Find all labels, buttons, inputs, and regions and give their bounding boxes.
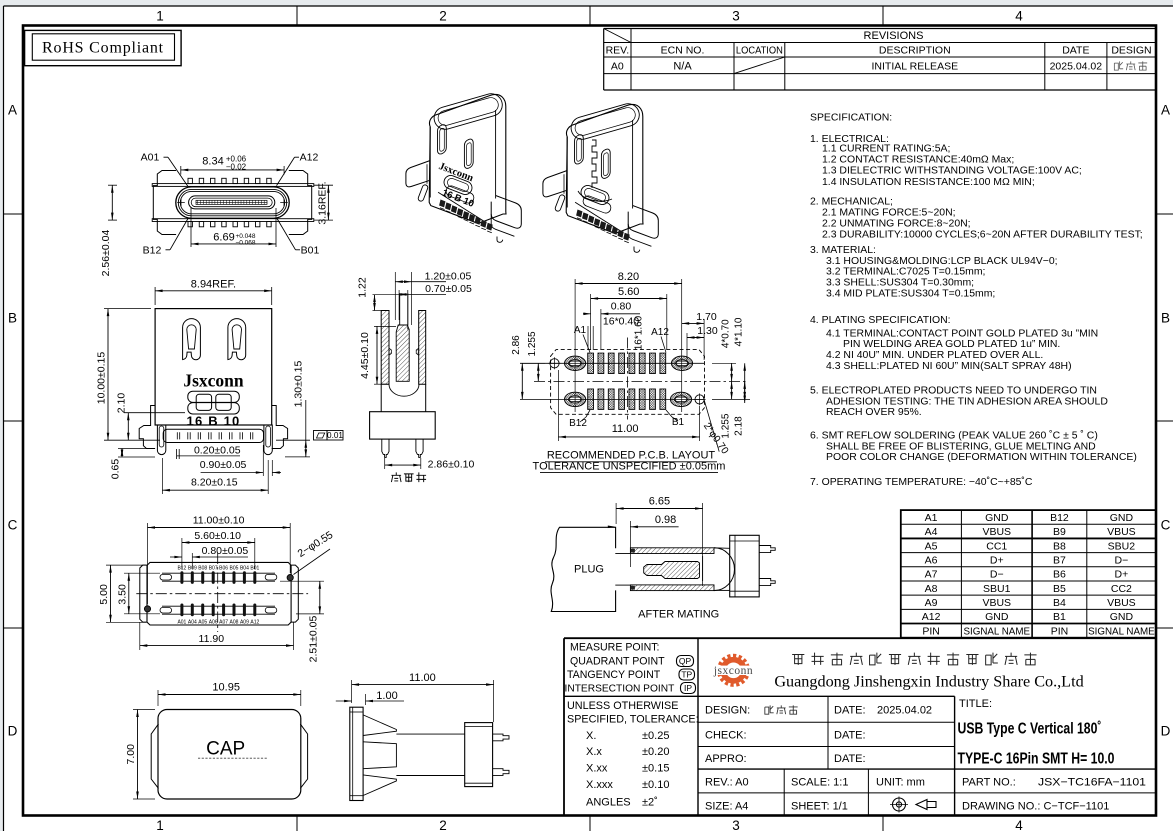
svg-text:DESIGN: DESIGN [1111, 45, 1151, 57]
svg-text:TYPE-C 16Pin SMT H= 10.0: TYPE-C 16Pin SMT H= 10.0 [958, 751, 1115, 768]
svg-text:UNLESS OTHERWISE: UNLESS OTHERWISE [567, 700, 678, 712]
svg-text:±0.10: ±0.10 [642, 779, 669, 791]
svg-text:jsxconn: jsxconn [713, 665, 753, 677]
svg-text:X.xxx: X.xxx [586, 779, 613, 791]
svg-text:1.20±0.05: 1.20±0.05 [425, 270, 472, 282]
svg-text:1.00: 1.00 [376, 690, 397, 702]
svg-text:SBU2: SBU2 [1108, 540, 1136, 552]
svg-text:0.98: 0.98 [655, 514, 676, 526]
svg-text:1: 1 [156, 9, 164, 24]
svg-text:1.22: 1.22 [357, 277, 369, 298]
svg-text:RoHS Compliant: RoHS Compliant [42, 39, 164, 56]
dims 1.255 / 2.18 right (pcb) [721, 381, 747, 438]
svg-text:SIGNAL NAME: SIGNAL NAME [1088, 626, 1155, 637]
svg-text:PIN WELDING AREA GOLD PLAT: PIN WELDING AREA GOLD PLATED 1u” MIN. [843, 339, 1060, 350]
svg-text:REACH OVER 95%.: REACH OVER 95%. [826, 407, 922, 418]
front view side posts with oval slots [157, 425, 272, 455]
cap side view flange [350, 707, 363, 800]
dim 3.50 (bottom view) [117, 573, 161, 614]
svg-text:±2˚: ±2˚ [642, 797, 658, 809]
svg-text:1.255: 1.255 [721, 413, 732, 438]
dim 5.60±0.10 (bottom view) [182, 530, 255, 569]
dim 8.94REF [155, 278, 272, 305]
svg-text:8.20: 8.20 [618, 271, 639, 283]
dim 11.00 (cap side) [352, 672, 494, 722]
measure point box text [565, 642, 696, 695]
svg-text:0.01: 0.01 [327, 431, 343, 440]
svg-text:VBUS: VBUS [1107, 526, 1136, 538]
svg-text:B04: B04 [240, 565, 249, 571]
svg-text:A04: A04 [188, 620, 197, 626]
cap side view right block and pins [465, 723, 509, 787]
dim 6.65 (after mating) [616, 496, 703, 587]
svg-text:±0.15: ±0.15 [642, 763, 669, 775]
svg-text:SCALE: 1:1: SCALE: 1:1 [791, 777, 848, 789]
svg-text:SPECIFICATION:: SPECIFICATION: [810, 113, 892, 124]
dim 11.90 (bottom view) [140, 622, 294, 650]
bottom view pin rows [160, 571, 277, 616]
svg-text:A1: A1 [574, 325, 587, 336]
pcb layout footprint outline (dashed) [551, 350, 705, 415]
svg-text:2: 2 [439, 9, 447, 24]
svg-text:D+: D+ [1115, 569, 1129, 581]
svg-text:DESIGN:: DESIGN: [705, 705, 750, 717]
svg-text:C: C [8, 518, 18, 533]
svg-text:0.70±0.05: 0.70±0.05 [425, 283, 472, 295]
svg-text:SBU1: SBU1 [983, 583, 1011, 595]
svg-text:B12: B12 [143, 245, 162, 257]
dim 2-phi0.55 (bottom view) [294, 529, 336, 575]
svg-text:0.90±0.05: 0.90±0.05 [200, 459, 247, 471]
svg-text:AFTER MATING: AFTER MATING [638, 609, 719, 621]
svg-text:CHECK:: CHECK: [705, 729, 747, 741]
outer sheet border [4, 5, 1173, 7]
pcb hole pads 2-phi0.70 [549, 357, 706, 405]
bottom view pin labels top row [177, 565, 259, 571]
svg-text:C: C [1161, 518, 1171, 533]
front view contact window [188, 391, 240, 414]
svg-text:0.80: 0.80 [611, 301, 632, 313]
svg-text:1.30: 1.30 [697, 325, 718, 337]
svg-text:X.x: X.x [586, 746, 602, 758]
dim 1.30 (pcb) [687, 325, 718, 360]
dim 0.98 (after mating) [608, 514, 679, 567]
svg-text:A08: A08 [230, 620, 239, 626]
top view pins [188, 178, 271, 227]
svg-text:3: 3 [732, 9, 740, 24]
svg-text:GND: GND [985, 611, 1009, 623]
svg-text:8.20±0.15: 8.20±0.15 [191, 477, 238, 489]
svg-text:SIZE: A4: SIZE: A4 [705, 801, 748, 813]
svg-text:11.90: 11.90 [199, 633, 225, 645]
rev/scale/unit row [705, 777, 925, 813]
flatness callout 0.01 [314, 431, 344, 441]
svg-text:2.1 MATING FORCE:5~20N;: 2.1 MATING FORCE:5~20N; [822, 208, 956, 219]
svg-text:X.: X. [586, 730, 596, 742]
svg-text:REV.: REV. [606, 45, 630, 57]
dim 5.00 (bottom view) [98, 565, 146, 622]
svg-text:A0: A0 [611, 61, 624, 73]
svg-text:5. ELECTROPLATED PRODUCTS NE: 5. ELECTROPLATED PRODUCTS NEED TO UNDERG… [810, 386, 1097, 397]
dim 8.20 (pcb) [575, 271, 682, 412]
svg-text:REV.: A0: REV.: A0 [705, 777, 749, 789]
svg-text:3.16REF.: 3.16REF. [317, 181, 329, 224]
bottom view holes [144, 575, 293, 613]
specification text block [810, 113, 1143, 488]
svg-text:JSX−TC16FA−1101: JSX−TC16FA−1101 [1038, 777, 1146, 789]
dim 10.00±0.15 [96, 309, 161, 441]
svg-text:SHEET: 1/1: SHEET: 1/1 [791, 801, 848, 813]
svg-text:A8: A8 [925, 583, 938, 595]
svg-text:2.86±0.10: 2.86±0.10 [428, 459, 475, 471]
zone tick marks bottom [296, 816, 298, 831]
svg-text:±0.20: ±0.20 [642, 746, 669, 758]
pin assignment table [901, 510, 1156, 638]
svg-text:2.10: 2.10 [116, 393, 128, 414]
svg-text:4.3 SHELL:PLATED NI 60U” M: 4.3 SHELL:PLATED NI 60U” MIN(SALT SPRAY … [826, 361, 1072, 372]
svg-text:4: 4 [1015, 9, 1023, 24]
svg-text:SPECIFIED, TOLERANCE:: SPECIFIED, TOLERANCE: [567, 714, 699, 726]
svg-text:TITLE:: TITLE: [959, 698, 992, 710]
svg-text:A12: A12 [922, 611, 941, 623]
svg-text:Guangdong Jinshengxin Industry: Guangdong Jinshengxin Industry Share Co.… [774, 673, 1083, 691]
pcb pads top row [588, 353, 666, 373]
svg-text:B12: B12 [1050, 512, 1069, 524]
svg-text:ADHESION TESTING: THE TIN: ADHESION TESTING: THE TIN ADHESION AREA … [826, 396, 1108, 407]
svg-text:D: D [1161, 724, 1171, 739]
svg-text:6. SMT REFLOW SOLDERING (PE: 6. SMT REFLOW SOLDERING (PEAK VALUE 260 … [810, 430, 1098, 442]
pcb centerlines [534, 380, 747, 382]
svg-text:B9: B9 [1053, 526, 1066, 538]
svg-text:SHALL BE FREE OF BLISTERIN: SHALL BE FREE OF BLISTERING, GLUE MELTIN… [826, 441, 1096, 452]
pcb row center lines [520, 362, 704, 364]
svg-text:1.2 CONTACT RESISTANCE:40mΩ: 1.2 CONTACT RESISTANCE:40mΩ Max; [822, 155, 1014, 166]
dim 1.70 (pcb) [682, 311, 717, 360]
svg-text:0.80±0.05: 0.80±0.05 [202, 545, 249, 557]
svg-text:QUADRANT POINT: QUADRANT POINT [570, 655, 665, 667]
zone tick marks left [4, 213, 24, 215]
svg-text:VBUS: VBUS [982, 526, 1011, 538]
pcb oval pads [565, 356, 693, 407]
svg-text:POOR COLOR CHANGE (DEFORMAT: POOR COLOR CHANGE (DEFORMATION WITHIN TO… [826, 452, 1137, 463]
svg-text:4.1 TERMINAL:CONTACT POINT: 4.1 TERMINAL:CONTACT POINT GOLD PLATED 3… [826, 328, 1098, 339]
svg-text:7.00: 7.00 [125, 744, 137, 765]
design/check/appro rows [705, 705, 932, 766]
svg-text:±0.25: ±0.25 [642, 730, 669, 742]
dim 2.56±0.04 [100, 185, 117, 276]
revisions table [604, 29, 1156, 91]
dim 8.34 +0.06/-0.02 [181, 154, 284, 174]
svg-text:3.50: 3.50 [117, 584, 129, 605]
svg-text:8.34: 8.34 [202, 155, 223, 167]
dim 10.95 (cap) [158, 682, 301, 707]
dim 11.00±0.10 (bottom view) [148, 515, 291, 605]
svg-text:0.65: 0.65 [110, 459, 122, 480]
svg-text:B07: B07 [209, 565, 218, 571]
front view: connector body outline [139, 309, 287, 449]
svg-text:A12: A12 [300, 152, 319, 164]
front view latch hooks [183, 319, 201, 360]
svg-text:A01: A01 [141, 152, 160, 164]
svg-text:11.00±0.10: 11.00±0.10 [193, 515, 245, 527]
svg-text:D−: D− [1115, 555, 1129, 567]
company name chinese [792, 654, 804, 664]
dim 2-phi0.70 (pcb) [701, 396, 731, 457]
svg-text:2025.04.02: 2025.04.02 [1050, 61, 1103, 73]
svg-text:A: A [1161, 103, 1170, 118]
svg-text:4. PLATING SPECIFICATION:: 4. PLATING SPECIFICATION: [810, 315, 951, 326]
label B1 (pcb) [666, 410, 685, 428]
svg-text:CC1: CC1 [986, 540, 1007, 552]
svg-text:TOLERANCE UNSPECIFIED ±0.05m: TOLERANCE UNSPECIFIED ±0.05mm [533, 461, 726, 473]
svg-text:ANGLES: ANGLES [586, 797, 631, 809]
svg-text:X.xx: X.xx [586, 763, 608, 775]
svg-text:USB Type C Vertical 180˚: USB Type C Vertical 180˚ [958, 721, 1102, 738]
svg-text:TP: TP [681, 670, 692, 680]
dim 16*0.40 (pcb) [588, 316, 639, 351]
svg-text:5.60: 5.60 [618, 286, 639, 298]
svg-text:1.4 INSULATION RESISTANCE:10: 1.4 INSULATION RESISTANCE:100 MΩ MIN; [822, 177, 1035, 188]
svg-text:PIN: PIN [922, 625, 940, 637]
section view base block [370, 384, 436, 439]
svg-text:D−: D− [990, 569, 1004, 581]
svg-text:A6: A6 [925, 555, 938, 567]
bottom view pin labels bottom row [177, 620, 259, 626]
svg-text:2.51±0.05: 2.51±0.05 [308, 616, 320, 663]
svg-text:GND: GND [1110, 512, 1134, 524]
svg-text:B6: B6 [1053, 569, 1066, 581]
dim 0.90±0.05 [200, 445, 281, 476]
svg-text:A05: A05 [198, 620, 207, 626]
svg-text:INITIAL RELEASE: INITIAL RELEASE [872, 61, 959, 73]
svg-text:3.4 MID PLATE:SUS304 T=0.15: 3.4 MID PLATE:SUS304 T=0.15mm; [826, 288, 995, 299]
svg-text:B: B [1161, 311, 1170, 326]
label B12 (pcb) [569, 410, 590, 429]
svg-text:3.3 SHELL:SUS304 T=0.30mm;: 3.3 SHELL:SUS304 T=0.30mm; [826, 278, 974, 289]
tolerance box text [567, 700, 699, 809]
svg-text:A1: A1 [925, 512, 938, 524]
svg-text:11.00: 11.00 [409, 672, 436, 684]
dims 4*0.70 / 4*1.10 (pcb) [712, 317, 750, 399]
svg-text:DATE: DATE [1062, 45, 1089, 57]
svg-text:GND: GND [985, 512, 1009, 524]
dim 0.70±0.05 (section) [399, 283, 472, 325]
dim 0.65 [110, 449, 156, 480]
dim 1.00 (cap side) [336, 690, 404, 705]
zone tick marks right [1156, 213, 1173, 215]
svg-text:4.2 NI 40U” MIN. UNDER PL: 4.2 NI 40U” MIN. UNDER PLATED OVER ALL. [826, 350, 1043, 361]
svg-text:A9: A9 [925, 597, 938, 609]
label B01 [277, 219, 319, 257]
svg-text:A5: A5 [925, 540, 938, 552]
svg-text:3: 3 [732, 818, 740, 831]
svg-text:A07: A07 [219, 620, 228, 626]
section view legs [382, 439, 423, 457]
svg-text:3.1 HOUSING&MOLDING:LCP BLAC: 3.1 HOUSING&MOLDING:LCP BLACK UL94V−0; [826, 256, 1058, 267]
bottom view centerlines [136, 593, 308, 595]
svg-text:DATE:: DATE: [834, 753, 866, 765]
dim 1.22 (section) [357, 277, 400, 310]
after mating: receptacle base [730, 535, 776, 597]
svg-text:A01: A01 [177, 620, 186, 626]
3d isometric view 1 [406, 91, 521, 242]
after mating: barrel with hatched walls [615, 548, 734, 591]
svg-text:LOCATION: LOCATION [736, 45, 783, 57]
svg-text:2.2 UNMATING FORCE:8~20N;: 2.2 UNMATING FORCE:8~20N; [822, 219, 971, 230]
dim 11.00 (pcb) [558, 370, 699, 441]
svg-text:3.2 TERMINAL:C7025 T=0.15mm;: 3.2 TERMINAL:C7025 T=0.15mm; [826, 267, 985, 278]
svg-text:B12: B12 [569, 418, 587, 429]
svg-text:A: A [8, 103, 17, 118]
svg-text:D: D [8, 724, 18, 739]
dim 3.16REF [314, 181, 333, 224]
svg-text:DESCRIPTION: DESCRIPTION [879, 45, 951, 57]
svg-text:ECN NO.: ECN NO. [661, 45, 705, 57]
top view: connector top (stadium) [152, 171, 314, 235]
section view caption (cut view) [391, 472, 401, 482]
after mating: plug body [551, 527, 616, 611]
svg-text:16 B 10: 16 B 10 [187, 413, 241, 428]
RoHS Compliant label box [25, 30, 182, 65]
svg-text:4.45±0.10: 4.45±0.10 [359, 332, 371, 379]
part no / drawing no [962, 777, 1146, 813]
label A01 [141, 152, 188, 187]
svg-text:2: 2 [439, 818, 447, 831]
dim 1.20±0.05 (section) [395, 270, 471, 325]
svg-text:TANGENCY POINT: TANGENCY POINT [567, 669, 661, 681]
dim 1.30±0.15 [276, 361, 310, 457]
svg-text:8.94REF.: 8.94REF. [191, 278, 236, 290]
svg-text:B05: B05 [230, 565, 239, 571]
svg-text:GND: GND [1110, 611, 1134, 623]
cap top view [151, 710, 307, 800]
svg-text:DRAWING NO.: C−TCF−1101: DRAWING NO.: C−TCF−1101 [962, 801, 1109, 813]
svg-text:INTERSECTION POINT: INTERSECTION POINT [565, 683, 675, 694]
pcb pads bottom row [588, 389, 666, 409]
svg-text:A7: A7 [925, 569, 938, 581]
svg-text:6.65: 6.65 [649, 496, 670, 508]
svg-text:B5: B5 [1053, 583, 1066, 595]
label A12 (pcb) [651, 327, 669, 353]
svg-text:B: B [8, 311, 17, 326]
pcb layout caption [533, 449, 726, 472]
svg-text:B1: B1 [1053, 611, 1066, 623]
svg-text:D+: D+ [990, 555, 1004, 567]
dim 2.10 [116, 393, 186, 441]
svg-text:DATE:: DATE: [834, 705, 866, 717]
section view tongue [389, 293, 419, 381]
svg-text:PLUG: PLUG [574, 563, 604, 575]
svg-text:PART NO.:: PART NO.: [962, 777, 1016, 789]
svg-text:A4: A4 [925, 526, 938, 538]
svg-text:A09: A09 [240, 620, 249, 626]
svg-text:B7: B7 [1053, 555, 1066, 567]
dim 0.20±0.05 [176, 445, 240, 460]
svg-text:REVISIONS: REVISIONS [864, 30, 924, 42]
svg-text:4*1.10: 4*1.10 [734, 317, 745, 346]
svg-text:0.20±0.05: 0.20±0.05 [194, 445, 241, 457]
dim 2.86±0.10 (section) [385, 458, 475, 471]
label A12 [277, 152, 319, 186]
svg-text:2.56±0.04: 2.56±0.04 [100, 230, 112, 277]
svg-text:1.3 DIELECTRIC WITHSTANDING: 1.3 DIELECTRIC WITHSTANDING VOLTAGE:100V… [822, 165, 1082, 176]
svg-text:A12: A12 [651, 327, 669, 338]
svg-text:1.30±0.15: 1.30±0.15 [293, 361, 305, 408]
svg-text:A12: A12 [250, 620, 259, 626]
svg-text:16*1.60: 16*1.60 [634, 315, 645, 350]
svg-text:1.255: 1.255 [527, 331, 538, 356]
title text [958, 698, 1115, 768]
3d isometric view 2 [543, 101, 658, 252]
svg-text:5.00: 5.00 [98, 584, 110, 605]
svg-text:CAP: CAP [206, 739, 245, 760]
svg-text:B4: B4 [1053, 597, 1066, 609]
svg-text:11.00: 11.00 [612, 423, 639, 435]
svg-text:2025.04.02: 2025.04.02 [877, 705, 932, 717]
svg-text:B1: B1 [672, 417, 685, 428]
svg-text:−0.02: −0.02 [226, 162, 247, 171]
company logo jsxconn gear [711, 655, 757, 685]
svg-text:VBUS: VBUS [1107, 597, 1136, 609]
svg-text:B01: B01 [301, 245, 320, 257]
section view walls [381, 311, 426, 385]
svg-text:QP: QP [679, 656, 692, 666]
title block frame [564, 638, 1156, 815]
svg-text:6.69: 6.69 [213, 232, 234, 244]
dim 0.80 (pcb) [583, 301, 640, 350]
svg-text:UNIT: mm: UNIT: mm [876, 777, 925, 789]
svg-text:IP: IP [684, 683, 692, 693]
dim 8.20±0.15 [162, 458, 268, 494]
svg-text:2.18: 2.18 [734, 416, 745, 436]
svg-text:10.95: 10.95 [212, 682, 240, 694]
svg-text:Jsxconn: Jsxconn [183, 371, 244, 391]
svg-text:N/A: N/A [673, 61, 692, 73]
label A1 (pcb) [574, 325, 590, 353]
svg-text:1.70: 1.70 [696, 311, 717, 323]
svg-text:B06: B06 [219, 565, 228, 571]
svg-text:CC2: CC2 [1111, 583, 1132, 595]
svg-text:DATE:: DATE: [834, 729, 866, 741]
svg-text:A06: A06 [209, 620, 218, 626]
svg-text:B08: B08 [198, 565, 207, 571]
svg-text:7. OPERATING TEMPERATURE: −4: 7. OPERATING TEMPERATURE: −40˚C~+85˚C [810, 476, 1033, 488]
svg-text:2.86: 2.86 [511, 335, 522, 355]
svg-text:2. MECHANICAL;: 2. MECHANICAL; [810, 197, 893, 208]
svg-text:5.60±0.10: 5.60±0.10 [194, 530, 241, 542]
svg-text:3. MATERIAL:: 3. MATERIAL: [810, 245, 876, 256]
svg-text:PIN: PIN [1051, 625, 1069, 637]
dim 7.00 (cap) [125, 710, 155, 800]
svg-text:1.1 CURRENT RATING:5A;: 1.1 CURRENT RATING:5A; [822, 144, 950, 155]
dim 5.60 (pcb) [591, 286, 667, 350]
svg-text:2.3 DURABILITY:10000 CYCLES;: 2.3 DURABILITY:10000 CYCLES;6~20N AFTER … [822, 229, 1143, 240]
bottom view body [140, 562, 298, 625]
dim 2.51±0.05 (bottom view) [280, 581, 324, 662]
svg-text:4: 4 [1015, 818, 1023, 831]
svg-text:10.00±0.15: 10.00±0.15 [96, 352, 108, 405]
third angle projection symbols [890, 797, 936, 813]
zone tick marks top [296, 6, 298, 26]
svg-text:MEASURE POINT:: MEASURE POINT: [570, 642, 659, 654]
svg-text:1: 1 [156, 818, 164, 831]
svg-text:VBUS: VBUS [982, 597, 1011, 609]
svg-text:4*0.70: 4*0.70 [721, 319, 732, 348]
svg-text:−0.068: −0.068 [235, 240, 255, 247]
svg-text:SIGNAL NAME: SIGNAL NAME [963, 626, 1030, 637]
label B12 [143, 219, 188, 257]
dim 6.69 [191, 208, 276, 247]
